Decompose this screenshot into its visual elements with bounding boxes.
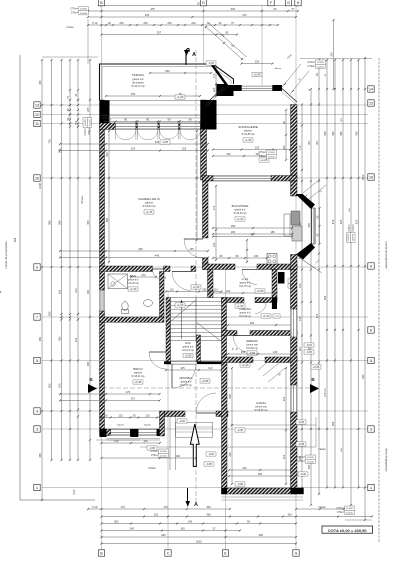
wall corner block living-terrace right [201, 100, 217, 130]
bottom bubbles [98, 550, 299, 556]
svg-text:S=3,21 mp: S=3,21 mp [182, 349, 194, 352]
svg-text:258: 258 [228, 394, 232, 399]
room label H 1/2 [239, 277, 251, 288]
svg-text:-0,35: -0,35 [162, 140, 169, 144]
svg-text:S=19,62 mp: S=19,62 mp [255, 409, 269, 412]
svg-text:11: 11 [35, 122, 39, 126]
terrace sill lines [102, 101, 203, 119]
svg-text:230: 230 [191, 21, 196, 25]
kitchen bay top corner block [296, 194, 316, 209]
svg-text:350: 350 [86, 220, 90, 225]
left dim column 4 [66, 59, 71, 461]
debara dims [227, 350, 293, 382]
svg-text:270: 270 [131, 397, 136, 401]
sufragerie bay top window [242, 86, 273, 92]
wall birou right lower vertical [160, 411, 165, 436]
svg-text:7: 7 [36, 315, 38, 319]
svg-text:6: 6 [370, 328, 372, 332]
svg-text:CTAv=: CTAv= [151, 454, 159, 457]
svg-text:+1,02: +1,02 [237, 304, 244, 308]
svg-text:CTNv=: CTNv= [150, 450, 158, 453]
wall garage bottom [222, 488, 304, 494]
wall living bottom / baie top [100, 266, 196, 272]
window swing arcs living room [115, 130, 200, 140]
svg-text:173: 173 [298, 145, 302, 150]
birou dims [59, 390, 161, 401]
svg-text:414,00: 414,00 [307, 461, 314, 463]
svg-text:110: 110 [208, 366, 213, 370]
wall hol right vertical [197, 335, 201, 362]
horizontal grid axis 3 [42, 428, 368, 430]
svg-text:A: A [192, 52, 196, 58]
svg-text:+1,00: +1,00 [177, 303, 184, 307]
svg-text:475: 475 [150, 7, 155, 11]
baie sink [144, 300, 153, 307]
left CTN labels rotated [83, 118, 91, 136]
top bubbles [98, 0, 301, 6]
svg-text:413,85: 413,85 [351, 234, 353, 241]
section arrow B left [88, 377, 97, 393]
level markers scattered [147, 61, 321, 476]
svg-text:13: 13 [35, 103, 39, 107]
cota box [322, 526, 373, 533]
camara dims [227, 321, 293, 326]
svg-text:-0,05: -0,05 [206, 462, 213, 466]
svg-text:230: 230 [167, 21, 172, 25]
svg-text:940: 940 [361, 374, 365, 379]
wall stair top (kitchen side) [208, 270, 214, 298]
svg-text:360: 360 [206, 513, 211, 517]
svg-text:+0,95: +0,95 [185, 354, 192, 358]
svg-text:+0,95: +0,95 [313, 365, 320, 369]
wall mid sufragerie-bucatarie [203, 176, 298, 182]
svg-text:S=25,04 mp: S=25,04 mp [143, 205, 157, 208]
svg-text:225: 225 [255, 146, 260, 150]
svg-text:S=4,70 mp: S=4,70 mp [180, 384, 192, 387]
terrace angled edge thick [212, 64, 228, 86]
svg-text:890: 890 [48, 220, 52, 225]
horizontal grid axis 13 [42, 104, 368, 106]
svg-text:10: 10 [35, 176, 39, 180]
section line A [195, 50, 197, 505]
top small chain [87, 19, 279, 64]
svg-text:H 1/2: H 1/2 [242, 277, 249, 281]
bottom dims 300/240 [100, 520, 297, 525]
room label DEBARA [246, 339, 258, 355]
right top CTN labels [307, 60, 325, 68]
svg-text:Intrare: Intrare [318, 447, 326, 451]
horizontal grid axis 4 [42, 410, 368, 412]
svg-text:447: 447 [250, 233, 255, 237]
svg-text:125: 125 [145, 414, 150, 418]
ctn labels bottom mid [297, 455, 315, 463]
svg-text:413,85: 413,85 [317, 62, 324, 64]
svg-text:S=5,40 mp: S=5,40 mp [127, 282, 139, 285]
wall kitchen right lower block [291, 255, 298, 270]
sufragerie bay right angled window [281, 89, 298, 105]
svg-text:+1,05: +1,05 [177, 95, 184, 99]
svg-text:140: 140 [114, 439, 119, 443]
horizontal grid axis 7 [42, 316, 368, 318]
vestibul dims [0, 291, 223, 371]
svg-text:225: 225 [255, 60, 260, 64]
svg-text:155: 155 [241, 350, 246, 354]
svg-text:505: 505 [105, 152, 109, 157]
svg-text:413,85: 413,85 [85, 118, 87, 125]
vertical grid axis F [261, 6, 263, 90]
svg-text:5: 5 [36, 359, 38, 363]
svg-text:135: 135 [298, 316, 302, 321]
svg-text:505: 505 [307, 464, 311, 469]
svg-text:Intrare: Intrare [148, 466, 156, 470]
svg-text:GARAJ: GARAJ [256, 401, 267, 405]
svg-text:414,00: 414,00 [268, 156, 275, 158]
svg-text:414,00: 414,00 [89, 118, 91, 125]
svg-text:BIROU: BIROU [133, 367, 143, 371]
svg-text:180: 180 [270, 230, 275, 234]
garage dims [228, 367, 292, 485]
wall baie bottom [100, 317, 165, 322]
wall top of living room with windows [100, 123, 207, 130]
svg-text:+0,95: +0,95 [135, 380, 142, 384]
svg-text:110: 110 [214, 288, 219, 292]
svg-text:414,00: 414,00 [80, 13, 87, 15]
svg-text:A: A [194, 502, 198, 508]
svg-text:CTNa=: CTNa= [307, 61, 315, 64]
window dim row above wall [103, 118, 202, 123]
wall h12 right [272, 270, 277, 302]
room label VESTIBUL [179, 376, 210, 387]
wall living room right [201, 100, 207, 180]
svg-text:D: D [202, 1, 205, 5]
svg-text:-0,35: -0,35 [237, 428, 244, 432]
svg-text:413,85: 413,85 [307, 457, 314, 459]
vertical grid axis B [101, 6, 103, 550]
svg-text:365: 365 [86, 361, 90, 366]
svg-text:Limita de proprietate: Limita de proprietate [4, 241, 8, 269]
diag leaders bay right [282, 54, 309, 94]
horizontal grid axis 1 [42, 487, 368, 489]
section arrow B right [310, 377, 319, 393]
svg-text:425: 425 [339, 219, 343, 224]
svg-text:520: 520 [165, 69, 170, 73]
bottom dims 940 [100, 533, 297, 538]
kitchen bay leader ticks [297, 179, 326, 273]
svg-text:170: 170 [121, 505, 126, 509]
svg-text:140: 140 [226, 289, 231, 293]
right dim column 7 [350, 59, 352, 506]
wall corner block top-left [100, 100, 110, 130]
left entrance label [80, 196, 84, 205]
svg-text:165: 165 [180, 527, 185, 531]
door hall arc [161, 272, 191, 291]
svg-text:5,10: 5,10 [92, 505, 98, 509]
svg-text:290: 290 [259, 533, 264, 537]
svg-text:-0,05: -0,05 [249, 351, 256, 355]
svg-text:300: 300 [114, 520, 119, 524]
svg-text:COTA ±0,00 = 439,50: COTA ±0,00 = 439,50 [328, 528, 368, 533]
svg-text:-0,35: -0,35 [306, 350, 313, 354]
sufragerie dims [212, 109, 291, 161]
room label SUFRAGERIE [238, 125, 258, 142]
svg-text:413,85: 413,85 [346, 508, 353, 510]
door camara arc [255, 303, 266, 314]
svg-text:236: 236 [228, 452, 232, 457]
svg-text:230: 230 [119, 21, 124, 25]
svg-text:DEBARA: DEBARA [246, 339, 258, 343]
svg-text:435: 435 [58, 336, 62, 341]
room label HOL [182, 341, 194, 358]
svg-text:506: 506 [331, 421, 335, 426]
svg-text:CTNa=: CTNa= [258, 151, 266, 154]
svg-text:5: 5 [370, 359, 372, 363]
svg-text:935: 935 [48, 311, 52, 316]
svg-text:365: 365 [339, 131, 343, 136]
svg-text:505: 505 [58, 289, 62, 294]
svg-text:300: 300 [258, 472, 263, 476]
svg-text:340: 340 [176, 454, 181, 458]
svg-text:+1,02: +1,02 [237, 217, 244, 221]
svg-text:890: 890 [105, 217, 109, 222]
vertical grid axis D [203, 6, 205, 64]
svg-text:14: 14 [369, 87, 373, 91]
terrace dims inside [105, 67, 217, 97]
svg-text:140: 140 [143, 439, 148, 443]
svg-text:220: 220 [154, 513, 159, 517]
svg-text:HOL: HOL [185, 341, 191, 345]
svg-text:256: 256 [323, 295, 327, 300]
left dim column 5 [74, 59, 79, 461]
living dims bottom [59, 247, 209, 258]
svg-text:413,85: 413,85 [268, 152, 275, 154]
door vestibul arc [172, 364, 196, 388]
door debara arc [233, 336, 251, 353]
wall bottom birou with windows [100, 429, 161, 437]
chimney block [278, 272, 295, 288]
bottom dims 1002 [100, 540, 297, 545]
svg-text:Intrare: Intrare [80, 196, 84, 205]
wall bottom vestibul / entrance [165, 411, 229, 417]
svg-text:Np=60: Np=60 [117, 424, 124, 426]
svg-text:425: 425 [145, 13, 150, 17]
svg-text:CTNv=: CTNv= [84, 127, 87, 135]
svg-text:CTAv=: CTAv= [88, 127, 91, 135]
svg-text:170: 170 [212, 73, 216, 78]
right bubbles [368, 86, 374, 491]
wall garage right [291, 270, 298, 495]
wall sufragerie right [291, 105, 298, 182]
svg-text:CTAv=: CTAv= [71, 12, 79, 15]
right dim column 3 [315, 59, 320, 495]
svg-text:475: 475 [74, 288, 78, 293]
top dimension chain 475/330/90/57 [87, 7, 299, 12]
sufragerie bay right jamb block [273, 85, 283, 91]
terrace room label TERASA [131, 73, 145, 88]
svg-text:170: 170 [163, 505, 168, 509]
svg-text:356: 356 [323, 131, 327, 136]
room label BAIE [127, 274, 139, 291]
door baie arc [153, 269, 164, 280]
property line left [4, 55, 95, 500]
horizontal grid axis 12 [42, 114, 368, 116]
wall hol-vestibul divider [164, 361, 222, 364]
svg-text:214: 214 [282, 454, 286, 459]
bottom dims 220/360/100 [100, 513, 373, 518]
wall camara-debara left vertical [222, 298, 227, 363]
svg-text:307: 307 [315, 140, 319, 145]
room label CAMARA [239, 307, 280, 318]
svg-text:+1,05: +1,05 [261, 158, 268, 162]
svg-text:9: 9 [36, 265, 38, 269]
wall kitchen right upper block [291, 181, 298, 196]
kitchen bottom dim row [212, 233, 293, 259]
kitchen dims [212, 185, 293, 263]
svg-text:+0,99: +0,99 [257, 289, 264, 293]
svg-text:415: 415 [355, 219, 359, 224]
top dimension chain 425 [87, 13, 297, 18]
living dims top [59, 140, 209, 151]
svg-text:Np=60: Np=60 [144, 424, 151, 426]
horizontal grid axis 10 [42, 177, 368, 179]
wall garage top [222, 357, 298, 363]
wall kitchen left [203, 181, 209, 270]
right dim column outer [345, 57, 372, 521]
horizontal grid axis 9 [42, 266, 368, 268]
svg-text:3: 3 [36, 427, 38, 431]
svg-text:270: 270 [141, 273, 146, 277]
door living-kitchen arc [184, 239, 203, 258]
left dim column 2 [48, 59, 53, 461]
svg-text:CTAv=: CTAv= [337, 511, 345, 514]
svg-text:+0,95: +0,95 [202, 379, 209, 383]
bottom right CTN labels [336, 506, 354, 514]
svg-text:+0,49: +0,49 [254, 73, 261, 77]
svg-text:SUFRAGERIE: SUFRAGERIE [238, 125, 258, 129]
top right dim 253 vertical [330, 19, 335, 90]
svg-text:CTNv=: CTNv= [297, 456, 305, 459]
svg-text:Intrare: Intrare [318, 505, 326, 509]
svg-text:253: 253 [330, 52, 334, 57]
svg-text:1008: 1008 [38, 183, 42, 189]
svg-text:180: 180 [231, 230, 236, 234]
svg-text:CTNv=: CTNv= [70, 8, 78, 11]
svg-text:12: 12 [35, 113, 39, 117]
svg-text:414,00: 414,00 [160, 455, 167, 457]
svg-text:S=16,04 mp: S=16,04 mp [234, 212, 248, 215]
svg-text:368: 368 [38, 453, 42, 458]
svg-text:300: 300 [138, 247, 143, 251]
svg-text:-0,02: -0,02 [208, 452, 215, 456]
svg-text:360: 360 [331, 131, 335, 136]
garage apron lines [222, 482, 304, 500]
svg-text:300: 300 [250, 321, 255, 325]
svg-text:+1,00: +1,00 [242, 363, 249, 367]
kitchen bay bottom corner block [296, 243, 315, 260]
svg-text:1000: 1000 [361, 174, 365, 180]
svg-text:G: G [295, 551, 298, 555]
left bubbles [34, 102, 40, 491]
svg-text:240: 240 [130, 527, 135, 531]
svg-text:CTNv=: CTNv= [336, 507, 344, 510]
svg-text:240: 240 [242, 466, 247, 470]
svg-text:CTAa=: CTAa= [259, 155, 267, 158]
svg-text:270: 270 [126, 390, 131, 394]
svg-text:110: 110 [169, 288, 174, 292]
svg-text:CTAa=: CTAa= [347, 225, 350, 233]
ctn labels bottom left [150, 449, 168, 457]
svg-text:S=12,71 mp: S=12,71 mp [131, 85, 145, 88]
svg-text:VESTIBUL: VESTIBUL [179, 376, 193, 380]
section arrow A bottom [186, 424, 214, 508]
svg-text:S=13,21 mp: S=13,21 mp [132, 375, 146, 378]
left dim column 3 [58, 59, 63, 461]
svg-text:135: 135 [180, 366, 185, 370]
right dim column 4 [323, 59, 328, 489]
vertical grid axis C [167, 290, 169, 550]
svg-text:537: 537 [157, 31, 162, 35]
svg-text:414,00: 414,00 [317, 66, 324, 68]
svg-text:890: 890 [58, 220, 62, 225]
svg-text:1: 1 [370, 486, 372, 490]
baie toilet [122, 302, 129, 314]
svg-text:-0,15: -0,15 [306, 343, 313, 347]
svg-text:307: 307 [307, 140, 311, 145]
svg-text:S=3,34 mp: S=3,34 mp [239, 315, 251, 318]
svg-text:375: 375 [315, 313, 319, 318]
svg-text:100: 100 [226, 152, 231, 156]
stair treads [170, 298, 222, 342]
right dim column 8 [300, 59, 372, 489]
svg-text:214: 214 [282, 396, 286, 401]
svg-text:9,23: 9,23 [73, 489, 76, 494]
svg-text:505: 505 [48, 383, 52, 388]
svg-text:-0,35: -0,35 [298, 420, 305, 424]
kitchen counter rects [284, 211, 302, 241]
svg-text:S=3,60 mp: S=3,60 mp [246, 347, 258, 350]
svg-text:414,00: 414,00 [346, 512, 353, 514]
svg-text:120: 120 [212, 242, 216, 247]
birou window dim row [100, 414, 165, 440]
svg-text:419: 419 [331, 219, 335, 224]
right column extra labels [309, 73, 351, 452]
svg-text:105: 105 [282, 145, 286, 150]
svg-text:225: 225 [86, 107, 90, 112]
right dim column 5 [331, 59, 336, 489]
wall garage left [222, 363, 228, 495]
svg-text:CTNa=: CTNa= [351, 224, 354, 232]
svg-text:445: 445 [155, 254, 160, 258]
bottom dims 240/165 [100, 527, 241, 532]
svg-text:413,85: 413,85 [80, 9, 87, 11]
kitchen stove [267, 254, 277, 265]
svg-text:540: 540 [131, 92, 136, 96]
wall camara top [222, 298, 278, 310]
svg-text:10: 10 [369, 175, 373, 179]
section line B [88, 387, 318, 389]
svg-text:300: 300 [206, 505, 211, 509]
svg-text:H: H [297, 1, 300, 5]
bay dim 225 row [240, 60, 281, 77]
svg-text:410: 410 [74, 337, 78, 342]
terrace outline [100, 64, 234, 100]
svg-text:510: 510 [58, 383, 62, 388]
top dimension chain 1002 [100, 2, 299, 7]
section arrow A top [184, 48, 196, 65]
svg-text:230: 230 [143, 21, 148, 25]
diag dim chain terrace angle [205, 23, 247, 60]
svg-text:-0,38: -0,38 [298, 442, 305, 446]
svg-text:limita de proprietate: limita de proprietate [385, 449, 389, 472]
